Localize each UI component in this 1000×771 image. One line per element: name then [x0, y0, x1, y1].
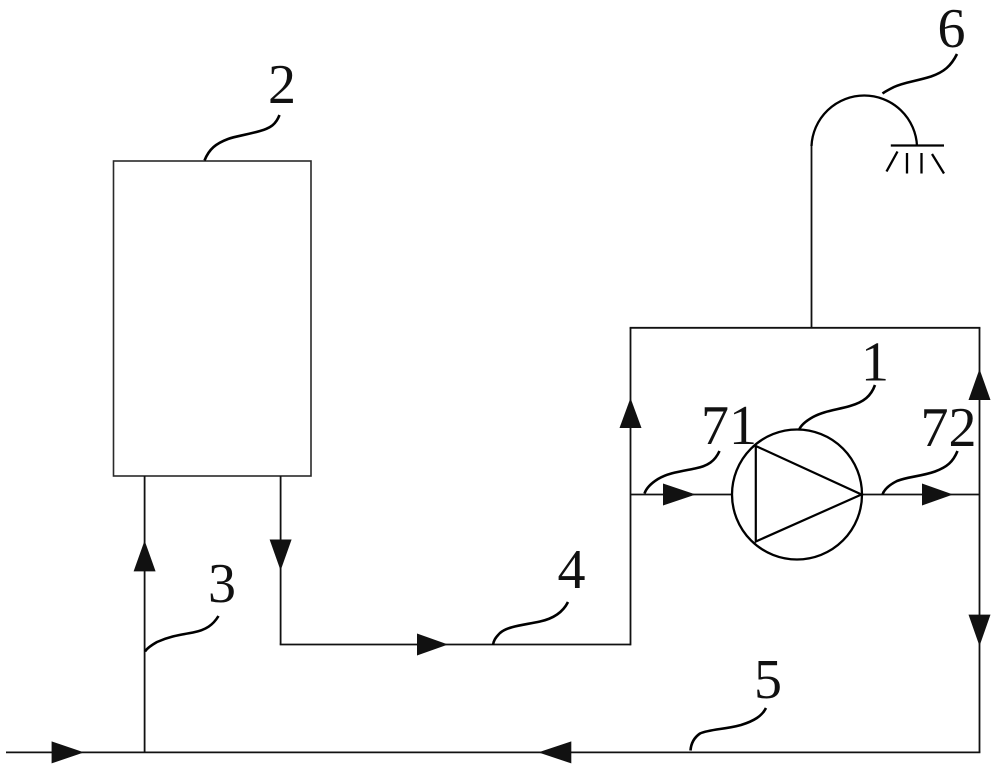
arrow right on bottom main (left end) [52, 741, 84, 763]
leader for label 5 [691, 708, 767, 751]
svg-text:2: 2 [268, 54, 296, 116]
pump 1 impeller triangle [756, 446, 862, 542]
water heater tank 2 [114, 161, 312, 476]
pump 1 circle [732, 430, 862, 560]
arrow up on pipe 3 [134, 541, 156, 572]
shower head 6 plate [891, 144, 944, 146]
svg-text:72: 72 [921, 397, 977, 459]
arrow left on bottom main [538, 741, 571, 763]
shower spray line c [920, 153, 922, 174]
svg-text:6: 6 [938, 0, 966, 60]
wire: horizontal pipe 4 [280, 644, 631, 646]
leader for label 6 [883, 54, 958, 94]
svg-text:5: 5 [754, 649, 782, 711]
leader for label 72 [883, 451, 958, 495]
wire: pump loop left edge [630, 328, 632, 646]
arrow up on pump loop left edge [620, 398, 642, 428]
leader for label 2 [205, 115, 280, 161]
arrow up on right edge [969, 369, 991, 400]
wire: shower riser [811, 144, 813, 328]
svg-text:1: 1 [861, 332, 889, 394]
svg-text:71: 71 [701, 395, 757, 457]
svg-text:3: 3 [208, 553, 236, 615]
leader for label 1 [799, 385, 875, 430]
svg-text:4: 4 [558, 539, 586, 601]
wire: cold inlet riser (pipe 3) [144, 476, 146, 752]
arrow right at pump inlet 71 [663, 484, 696, 506]
wire: pump loop top edge [630, 327, 981, 329]
shower spray line a [887, 152, 898, 172]
shower spray line d [932, 154, 944, 174]
wire: bottom return main (pipe 5) [6, 751, 980, 753]
arrow down on right edge [969, 615, 991, 646]
wire: pump loop right edge [979, 328, 981, 753]
leader for label 4 [493, 602, 568, 645]
arrow down on tank outlet [270, 540, 292, 571]
leader for label 3 [145, 616, 219, 652]
shower gooseneck arc [812, 95, 918, 146]
wire: pump suction/discharge line 71-72 [631, 494, 980, 496]
arrow right on pipe 4 [417, 634, 448, 656]
arrow right at pump outlet 72 [922, 484, 953, 506]
leader for label 71 [645, 451, 720, 494]
wire: hot outlet drop from tank [280, 476, 282, 645]
shower spray line b [906, 153, 908, 174]
